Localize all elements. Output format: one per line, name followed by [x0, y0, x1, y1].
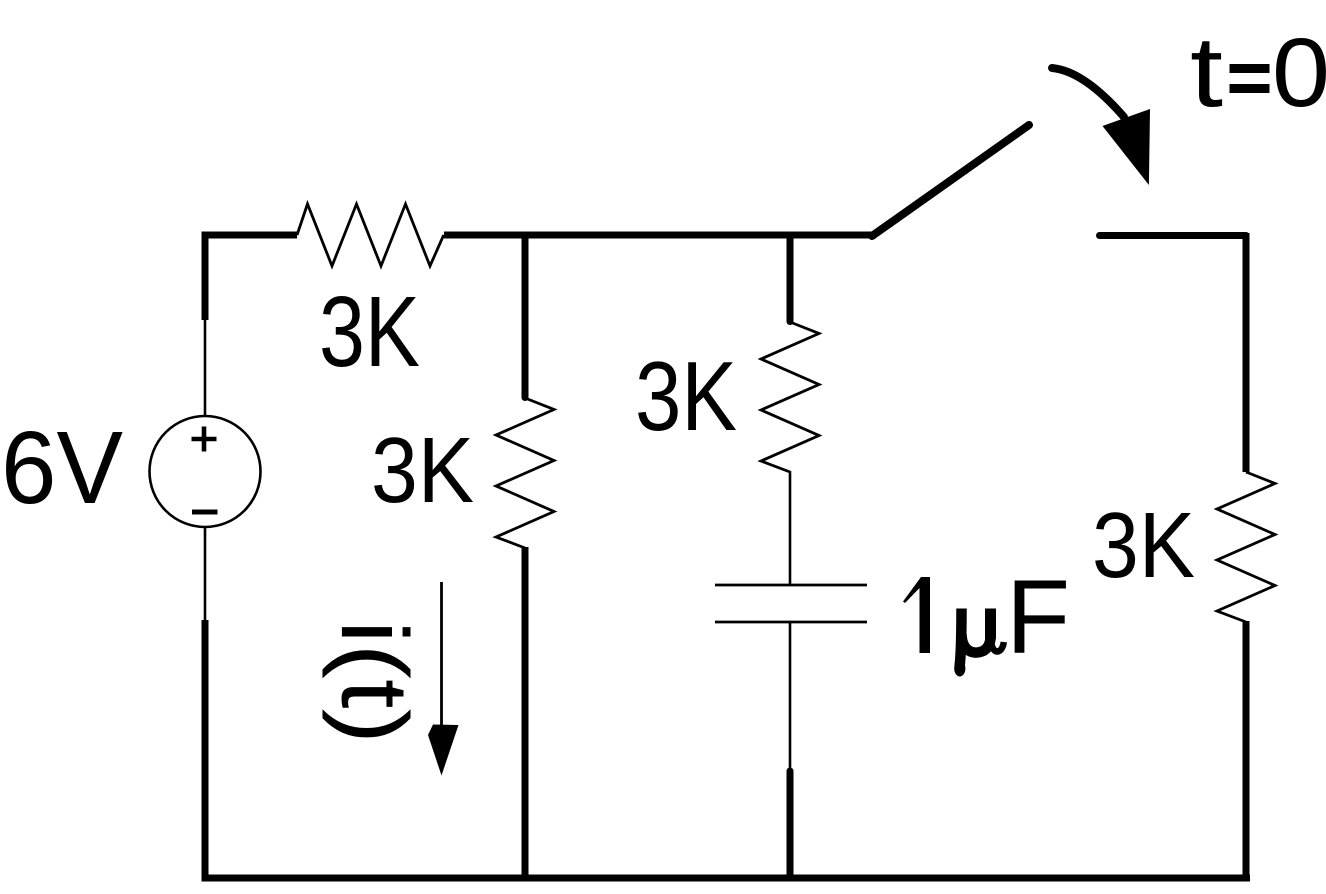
switch SW1 arc arrowhead	[1103, 109, 1151, 185]
wire left lower (thick)	[202, 620, 209, 878]
resistor R2 3K vertical zigzag	[496, 398, 554, 548]
wire branch1 upper	[522, 236, 529, 398]
wire top middle (R1 to switch pivot)	[444, 232, 876, 239]
resistor R4 3K vertical zigzag	[1217, 472, 1275, 622]
wire switch right contact (round left cap)	[1100, 232, 1247, 239]
switch SW1 lever	[872, 125, 1029, 236]
wire branch1 lower	[522, 547, 529, 882]
wire bottom rail	[202, 875, 1251, 882]
label C1 1uF	[903, 559, 1070, 677]
capacitor C1 bottom plate	[715, 621, 867, 624]
svg-text:0: 0	[1272, 18, 1326, 127]
svg-text:t: t	[1190, 16, 1223, 128]
wire right upper vertical	[1243, 233, 1250, 472]
wire branch2 bottom stub (thick)	[787, 771, 794, 876]
svg-text:i(t): i(t)	[321, 620, 427, 744]
switch SW1 motion arc	[1052, 68, 1124, 117]
wire top-left corner (source top to resistor R1)	[205, 235, 297, 320]
voltage source V1 circle	[150, 416, 261, 527]
current arrow i(t) line	[440, 582, 443, 727]
wire source bottom lead (thin)	[204, 527, 207, 621]
capacitor C1 top plate	[715, 584, 867, 587]
svg-text:3K: 3K	[1092, 493, 1195, 597]
V1 minus sign	[192, 510, 218, 515]
svg-text:6V: 6V	[1, 410, 123, 525]
wire R3 to capacitor lead (thin)	[789, 471, 792, 585]
svg-text:3K: 3K	[371, 418, 474, 522]
V1 plus sign	[192, 427, 217, 452]
current arrow i(t) head	[428, 725, 459, 776]
resistor R3 3K vertical zigzag	[761, 322, 819, 472]
wire capacitor bottom lead (thin)	[789, 622, 792, 772]
wire source top lead (thin)	[204, 318, 207, 416]
wire branch2 upper	[787, 236, 794, 322]
wire right lower vertical	[1243, 621, 1250, 878]
svg-text:F: F	[1006, 559, 1070, 676]
resistor R1 3K horizontal zigzag	[297, 204, 444, 266]
svg-text:3K: 3K	[635, 341, 737, 451]
svg-text:3K: 3K	[319, 276, 420, 388]
label t=0 : equals bars	[1230, 64, 1270, 73]
